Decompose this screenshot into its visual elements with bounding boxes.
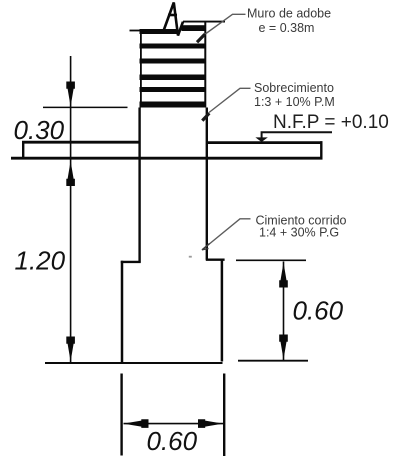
- dimension tick line 0.30 top reference: [43, 106, 128, 108]
- leader arrowhead cimiento open V: [202, 244, 210, 250]
- arrow up at right dimension top (0.60): [279, 263, 288, 288]
- adobe wall band 6: [140, 102, 206, 108]
- bottom dimension line 0.60: [124, 423, 224, 425]
- break symbol zigzag: [164, 3, 183, 36]
- adobe wall band 1 right segment: [182, 25, 206, 31]
- arrow left at bottom dimension (0.60): [124, 419, 149, 428]
- bottom extension line right: [223, 374, 225, 457]
- ground line left segment: [45, 362, 223, 364]
- bottom extension line left: [120, 374, 122, 456]
- cimiento corrido right vertical edge: [221, 259, 224, 362]
- adobe wall top-left lip line: [130, 30, 142, 32]
- cimiento step line left: [121, 261, 141, 263]
- small stray dash near left step: [189, 256, 192, 258]
- sobrecimiento left vertical edge: [138, 108, 140, 263]
- adobe wall right vertical edge: [204, 22, 206, 108]
- adobe wall band 2: [140, 44, 206, 49]
- svg-text:1:3 + 10% P.M: 1:3 + 10% P.M: [254, 95, 335, 109]
- arrow up below slab (1.20 top): [66, 161, 75, 186]
- floor slab bottom line: [11, 157, 323, 160]
- sobrecimiento right vertical edge: [206, 108, 208, 260]
- svg-text:e = 0.38m: e = 0.38m: [259, 21, 315, 35]
- svg-text:0.60: 0.60: [293, 296, 344, 326]
- leader arrowhead sobrecimiento: [202, 113, 209, 120]
- cimiento corrido left vertical edge: [121, 261, 124, 363]
- svg-text:N.F.P = +0.10: N.F.P = +0.10: [273, 112, 389, 133]
- svg-text:Muro de adobe: Muro de adobe: [247, 7, 331, 21]
- svg-text:Sobrecimiento: Sobrecimiento: [254, 81, 334, 95]
- main left dimension line: [70, 56, 72, 363]
- floor slab left cap: [22, 141, 24, 160]
- leader line to Sobrecimiento: [209, 88, 251, 112]
- arrow down at ground (1.20 bottom): [66, 337, 75, 362]
- svg-text:1:4 + 30% P.G: 1:4 + 30% P.G: [259, 226, 339, 240]
- svg-text:0.60: 0.60: [147, 426, 198, 456]
- adobe wall top-right lip line: [183, 21, 225, 23]
- N.F.P datum triangle marker: [255, 137, 267, 142]
- leader line to Muro de adobe: [205, 14, 245, 34]
- svg-text:1.20: 1.20: [15, 246, 66, 276]
- arrow down at right dimension bottom (0.60): [279, 335, 288, 360]
- adobe wall band 3: [140, 59, 206, 64]
- floor slab top line right part: [207, 141, 323, 144]
- adobe wall left vertical edge: [140, 29, 142, 108]
- leader line to Cimiento corrido: [205, 219, 251, 248]
- break symbol crossbar: [168, 14, 177, 17]
- adobe wall band 4: [140, 75, 206, 81]
- N.F.P datum level line: [262, 132, 332, 137]
- right dimension line 0.60: [283, 262, 285, 361]
- ground line right segment: [238, 360, 308, 362]
- arrow right at bottom dimension (0.60): [198, 419, 223, 428]
- arrow down at 0.30 tick: [66, 82, 75, 107]
- cimiento step line right: [206, 259, 225, 261]
- svg-text:0.30: 0.30: [14, 115, 65, 145]
- adobe wall band 5: [140, 87, 206, 92]
- right dimension top extension line: [236, 259, 306, 261]
- adobe wall band 1 left segment: [140, 29, 177, 34]
- floor slab top line left part: [22, 141, 140, 144]
- floor slab right cap: [320, 141, 322, 159]
- leader arrowhead muro: [197, 34, 205, 42]
